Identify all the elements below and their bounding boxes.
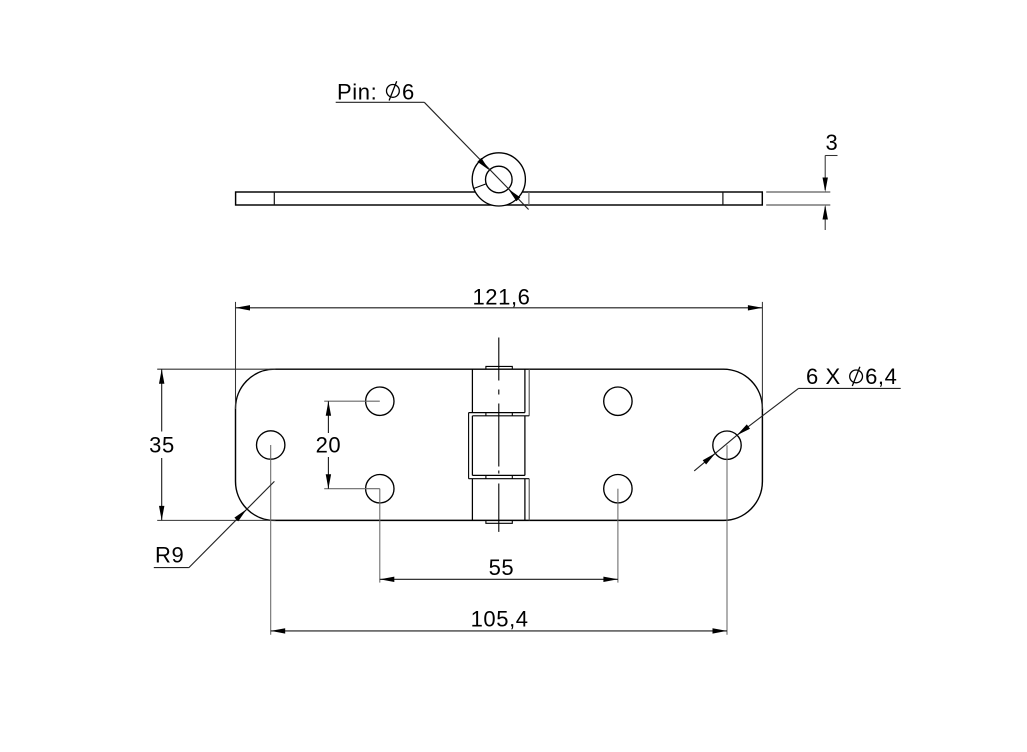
svg-text:20: 20 — [316, 433, 342, 458]
dim 20 line — [327, 401, 329, 489]
dim 121,6 line — [236, 307, 763, 309]
svg-text:35: 35 — [149, 432, 175, 457]
hinge leaf bar (side view outline) — [236, 192, 763, 205]
hole top-right — [604, 387, 632, 415]
dim 105,4 extension lines — [271, 445, 727, 635]
knuckle outer circle (rolled leaf) — [472, 153, 525, 206]
dim 121,6 arrows — [236, 305, 251, 310]
right leaf cut edge lower — [528, 479, 530, 521]
dim 35 extension lines — [157, 369, 275, 520]
hole right big — [713, 431, 741, 459]
pin dia arrow upper-left — [477, 158, 489, 170]
6,4 arrow at rim lower-left — [703, 453, 716, 464]
knuckle: inner-right edge (3 segments) — [524, 369, 526, 520]
svg-text:6,4: 6,4 — [865, 364, 897, 389]
svg-text:Pin:: Pin: — [337, 79, 377, 104]
dim 55 line — [380, 578, 618, 580]
pin end tab top — [486, 366, 512, 369]
dim 105,4 line — [271, 630, 727, 632]
label 6 X dia 6,4 — [806, 364, 897, 389]
hole left big — [257, 431, 285, 459]
pin end tab bottom — [486, 520, 512, 523]
knuckle junction 1 horizontals — [469, 412, 525, 414]
svg-text:6: 6 — [402, 79, 415, 104]
knuckle: inner-left edge (3 segments) — [471, 369, 473, 520]
leaf edge near knuckle (gray) — [528, 192, 530, 205]
roll seam line — [474, 184, 486, 189]
right leaf cut edge upper — [528, 369, 530, 416]
svg-text:55: 55 — [489, 555, 515, 580]
R9 leader — [154, 481, 275, 567]
svg-text:3: 3 — [826, 130, 839, 155]
dim 105,4 arrows — [271, 628, 286, 633]
hole top-left — [366, 387, 394, 415]
dim 20 extension lines — [324, 401, 380, 489]
dim 3 arrow up — [823, 205, 828, 220]
dim 3 arrow down — [823, 178, 828, 193]
6,4 leader — [694, 388, 901, 471]
dim 35 line — [161, 369, 163, 520]
pin leader line — [336, 102, 529, 209]
pin circle — [486, 166, 513, 193]
hinge plate outline — [236, 369, 763, 520]
label Pin: dia 6 — [337, 79, 415, 104]
dim 20 arrows — [326, 401, 331, 416]
dim 35 arrows — [159, 369, 164, 384]
6,4 arrow at rim upper-right — [737, 424, 750, 435]
leaf edge divider left — [273, 192, 275, 205]
svg-text:R9: R9 — [155, 542, 184, 567]
knuckle junction 2 horizontals — [472, 474, 525, 476]
pin dia arrow lower-right — [508, 189, 520, 201]
dim 121,6 extension lines — [236, 302, 763, 409]
dim 55 extension lines — [380, 489, 618, 583]
pin centerline — [498, 338, 500, 532]
svg-text:6 X: 6 X — [806, 364, 841, 389]
leaf edge divider right — [722, 192, 724, 205]
hole bottom-right — [604, 475, 632, 503]
svg-text:121,6: 121,6 — [472, 285, 530, 310]
svg-text:105,4: 105,4 — [471, 606, 529, 631]
thickness dim 3: extension lines — [766, 156, 837, 231]
left leaf cut edge — [468, 413, 470, 479]
pin edges in junction 2 — [485, 475, 487, 478]
hole bottom-left — [366, 475, 394, 503]
dim 55 arrows — [380, 577, 395, 582]
R9 arrow — [234, 509, 246, 521]
pin edges in junction 1 — [485, 413, 487, 416]
